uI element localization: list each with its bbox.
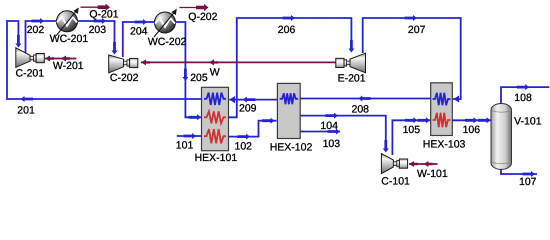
svg-text:104: 104 xyxy=(320,120,338,132)
HEX-101 coil pass 2 (red) xyxy=(204,111,226,123)
wire stream 209 (HEX-102 to HEX-101) xyxy=(229,99,277,101)
wire stream 108 (V-101 vapor out) xyxy=(501,87,549,104)
heat exchanger HEX-101 body xyxy=(202,87,229,150)
svg-text:108: 108 xyxy=(514,92,532,104)
svg-text:C-201: C-201 xyxy=(16,68,45,80)
HEX-101 coil pass 1 (blue) xyxy=(204,93,226,105)
energy stream W (E-201 to C-202) xyxy=(141,61,337,63)
svg-text:W-201: W-201 xyxy=(53,60,84,72)
HEX-101 coil pass 3 (red) xyxy=(204,129,226,143)
wire stream 203 (WC-201 to C-202) xyxy=(78,21,115,53)
energy stream W-101 (to C-101) xyxy=(409,163,438,165)
svg-text:C-101: C-101 xyxy=(381,175,410,187)
wire stream 206 (HEX-101 to E-201) xyxy=(228,18,351,117)
svg-text:Q-202: Q-202 xyxy=(188,11,217,23)
svg-text:Q-201: Q-201 xyxy=(89,9,118,21)
cooler WC-201 xyxy=(57,11,78,32)
wire stream 205 (WC-202 to HEX-101) xyxy=(175,22,201,117)
svg-text:107: 107 xyxy=(519,176,537,188)
svg-text:204: 204 xyxy=(130,25,148,37)
svg-text:HEX-103: HEX-103 xyxy=(423,139,466,151)
svg-text:W: W xyxy=(210,66,220,78)
wire stream 106 (HEX-103 to V-101) xyxy=(452,119,492,121)
compressor C-201 xyxy=(16,48,30,68)
svg-text:101: 101 xyxy=(176,140,194,152)
svg-text:206: 206 xyxy=(278,24,296,36)
svg-text:106: 106 xyxy=(463,124,481,136)
svg-text:V-101: V-101 xyxy=(514,116,542,128)
expander E-201 xyxy=(350,53,366,73)
wire stream 208 (HEX-103 to HEX-102) xyxy=(300,98,431,100)
compressor C-202 xyxy=(109,55,124,73)
wire stream 102 (HEX-101 to HEX-102) xyxy=(228,121,277,137)
wire stream 204 (C-202 to WC-202) xyxy=(123,22,155,57)
svg-text:102: 102 xyxy=(235,140,253,152)
svg-text:205: 205 xyxy=(190,72,208,84)
svg-text:HEX-102: HEX-102 xyxy=(270,142,313,154)
svg-text:203: 203 xyxy=(89,24,107,36)
heat exchanger HEX-103 body xyxy=(431,83,453,136)
svg-text:202: 202 xyxy=(27,24,45,36)
compressor C-101 xyxy=(381,154,393,174)
svg-text:208: 208 xyxy=(352,104,370,116)
svg-text:207: 207 xyxy=(408,24,426,36)
energy stream Q-201 (WC-201 duty) xyxy=(81,6,100,8)
energy stream Q-202 (WC-202 duty) xyxy=(180,7,198,9)
HEX-103 coil pass 2 (red) xyxy=(433,113,451,127)
svg-text:E-201: E-201 xyxy=(338,72,366,84)
wire stream 104 (HEX-102 to C-101) xyxy=(300,116,386,151)
svg-text:105: 105 xyxy=(403,124,421,136)
HEX-103 coil pass 1 (blue) xyxy=(433,93,451,106)
svg-text:C-202: C-202 xyxy=(110,72,139,84)
wire stream 202 (C-201 to WC-201) xyxy=(26,21,58,53)
cooler WC-202 xyxy=(155,12,176,33)
wire stream 201 (HEX-101 to C-201 recycle) xyxy=(7,21,202,99)
wire stream 101 (feed to HEX-101) xyxy=(177,135,201,137)
svg-text:209: 209 xyxy=(239,103,257,115)
svg-text:103: 103 xyxy=(323,138,341,150)
svg-text:HEX-101: HEX-101 xyxy=(195,152,238,164)
HEX-102 coil pass (blue) xyxy=(280,93,299,104)
separator vessel V-101 xyxy=(491,104,512,170)
svg-text:W-101: W-101 xyxy=(417,168,448,180)
svg-text:WC-201: WC-201 xyxy=(50,33,89,45)
svg-text:201: 201 xyxy=(17,105,35,117)
heat exchanger HEX-102 body xyxy=(277,83,300,138)
wire stream 107 (V-101 liquid out) xyxy=(501,168,537,174)
energy stream W-201 (to C-201) xyxy=(45,58,76,60)
svg-text:WC-202: WC-202 xyxy=(148,36,187,48)
wire stream 105 (C-101 to HEX-103) xyxy=(392,120,430,155)
wire stream 103 (HEX-102 outlet) xyxy=(300,131,340,133)
wire stream 207 (E-201 to HEX-103) xyxy=(363,18,461,99)
